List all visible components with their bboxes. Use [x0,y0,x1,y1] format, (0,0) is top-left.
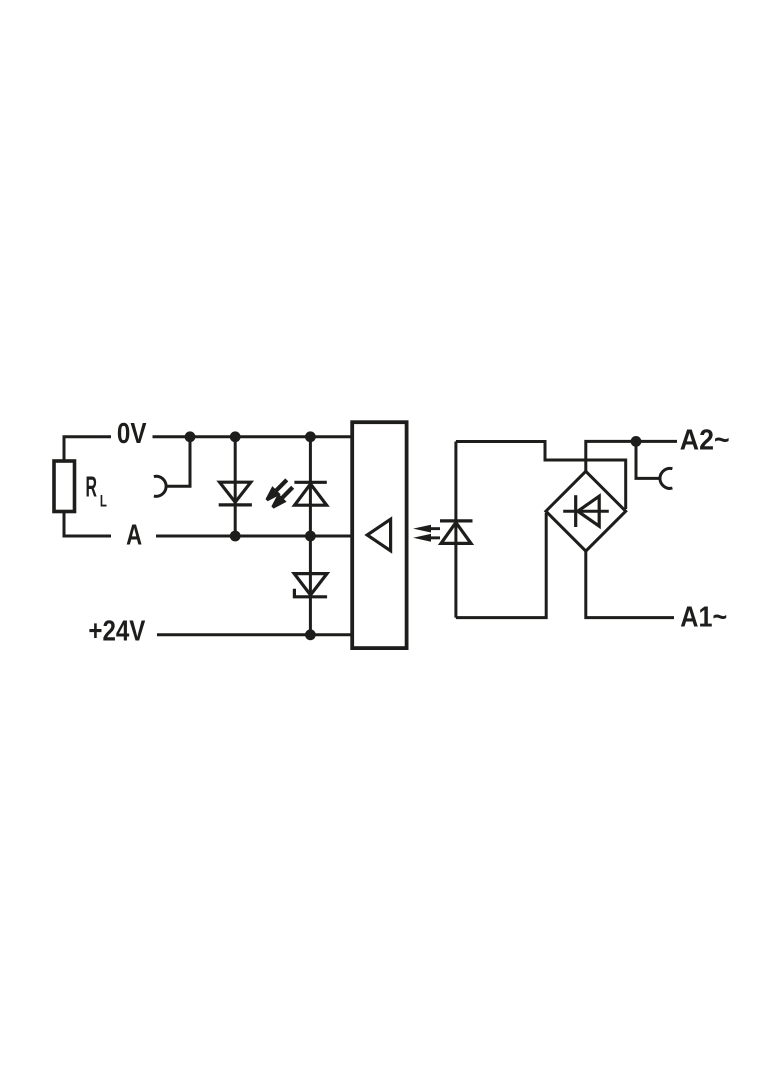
zener diode D3 cathode bar with bent end [294,589,327,597]
svg-text:+24V: +24V [88,616,146,648]
svg-text:A1~: A1~ [680,602,727,634]
junction dot D1 bottom [230,531,241,542]
zener diode D3 triangle (anode at A, cathode at +24V) [294,574,327,595]
wire zener D3 branch A to +24V [309,536,312,635]
wire A rail right segment to driver block [156,535,353,538]
wire LED loop bottom to bridge left vertex [456,513,546,618]
light arrow 2 into driver [413,534,440,542]
wire 0V rail left segment with riser from resistor RL top [64,437,111,462]
LED D2 emission arrow 1 [266,478,289,501]
resistor RL [54,461,75,512]
diode D1 (freewheel, anode at 0V, cathode at A) [220,482,251,502]
wire photo LED D4 vertical [454,442,457,618]
bridge rectifier diamond [546,471,626,551]
bridge inner diode cathode bar [574,495,577,527]
bridge inner diode horizontal wire [563,510,609,513]
wire 0V rail right segment to driver block [153,435,354,438]
svg-text:0V: 0V [117,418,147,450]
wire diode D1 branch 0V to A [234,437,237,536]
driver block amplifier triangle [367,519,390,551]
svg-text:R: R [86,472,98,504]
svg-text:A2~: A2~ [680,424,730,456]
LED D2 emission arrow 2 [271,486,294,509]
diode D1 cathode bar [219,503,252,506]
wire A rail left segment with riser from resistor RL bottom [64,510,111,536]
wire LED D2 branch A to 0V [309,437,312,536]
svg-text:A: A [126,520,142,552]
LED D4 cathode bar (top) [440,519,473,522]
junction dot A2 [631,436,642,447]
junction dot D2 top [305,431,316,442]
contact socket left (plug contact) [154,476,166,496]
svg-text:L: L [100,491,107,510]
wire +24V rail to driver block [157,633,353,636]
junction dot D1 top [230,431,241,442]
contact socket right (plug contact) [660,468,672,488]
light arrow 1 into driver [413,525,440,533]
wire from A2 junction down to right contact [636,441,661,478]
junction dot D3 bottom [305,629,316,640]
wire from left contact up to 0V rail [166,437,190,487]
wire LED loop top to bridge right vertex [456,442,626,510]
driver block U1 [352,422,406,648]
wire bridge top vertex to A2 rail [586,441,677,471]
LED D4 triangle (pointing up) [441,523,471,544]
LED D2 triangle (pointing up, anode at A) [295,484,327,505]
bridge inner diode triangle (pointing left) [578,496,599,526]
LED D2 cathode bar (top) [294,481,326,484]
wire bridge bottom vertex to A1 rail [586,551,674,618]
junction dot D2 bottom [305,531,316,542]
junction dot 0V-contact [185,431,196,442]
